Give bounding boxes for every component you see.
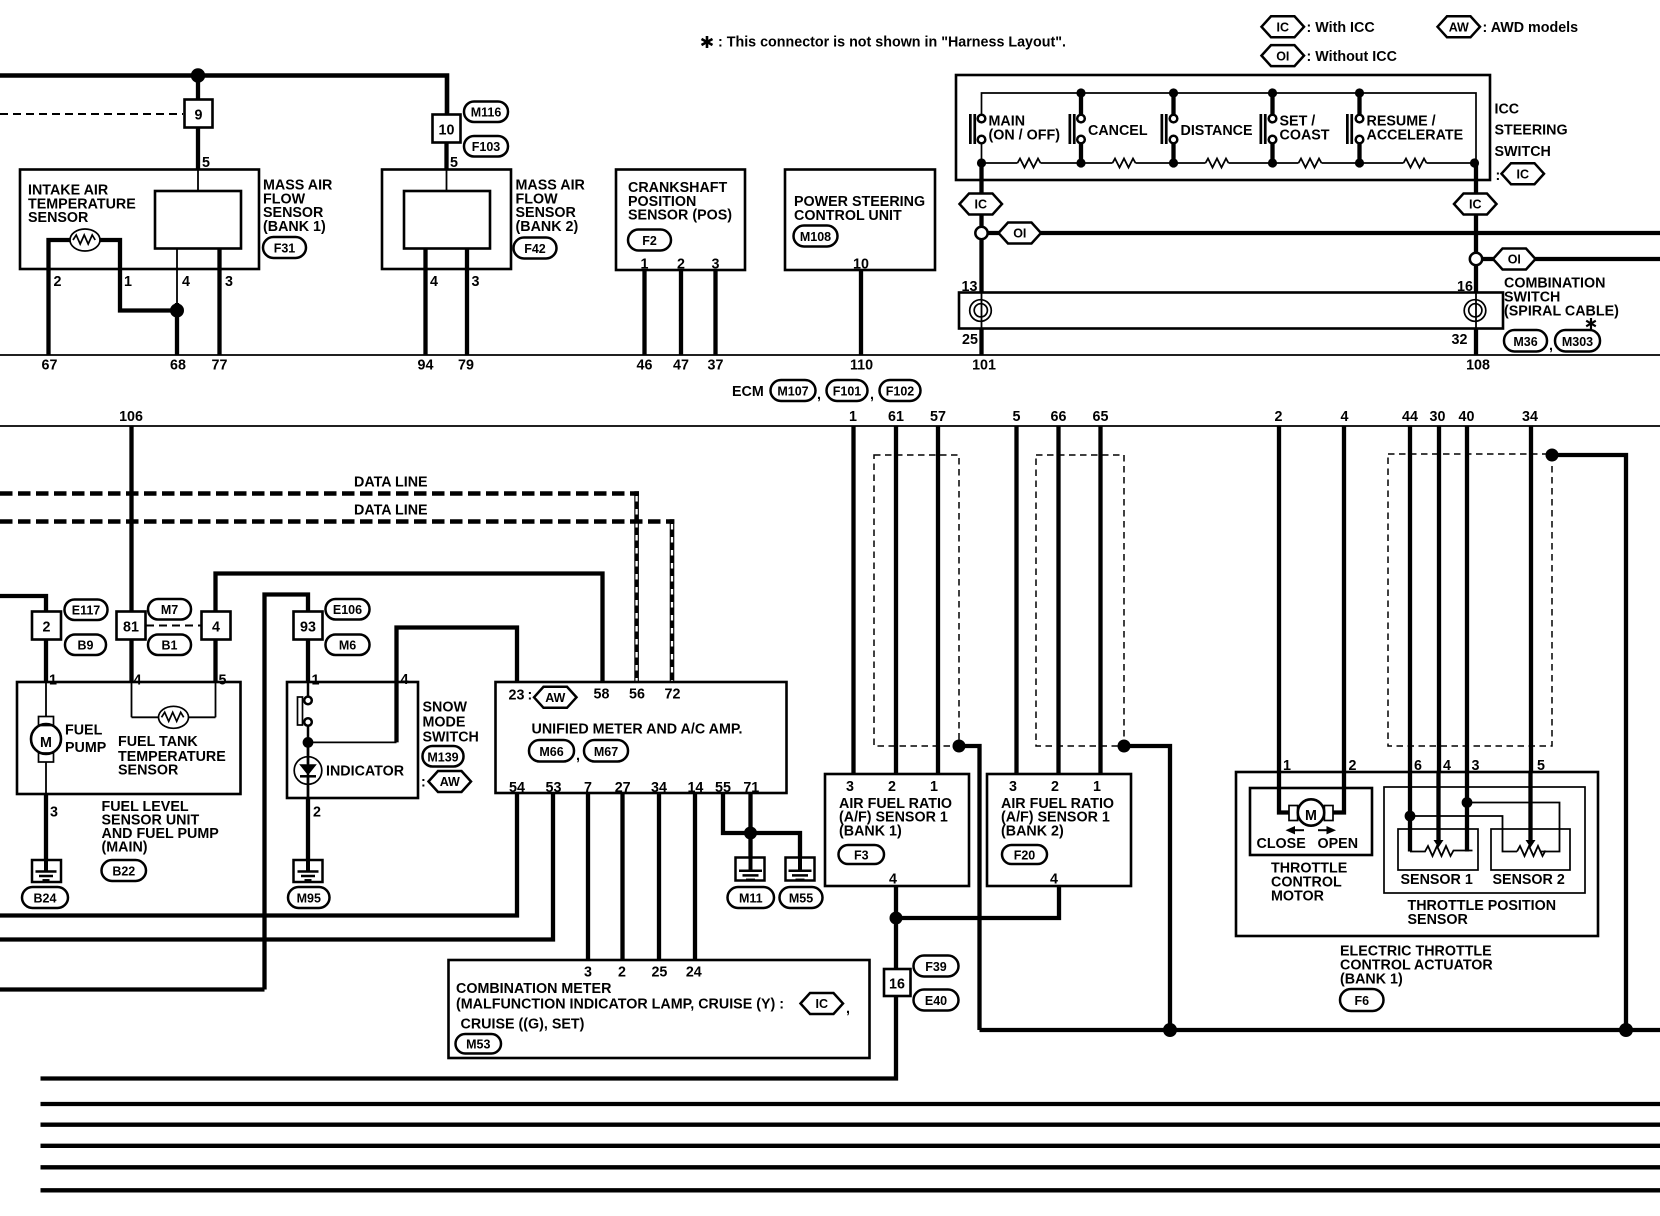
svg-text:3: 3 (584, 965, 592, 981)
circle node right (1470, 253, 1482, 265)
svg-text:M36: M36 (1513, 335, 1537, 349)
thermistor fuel tank temperature (131, 682, 133, 717)
svg-text:UNIFIED METER AND A/C AMP.: UNIFIED METER AND A/C AMP. (532, 722, 743, 738)
wire OI right branch (1481, 257, 1660, 261)
air fuel ratio sensor 1 bank 2 box (987, 774, 1131, 886)
svg-text:4: 4 (401, 672, 409, 688)
connector F20 (1002, 845, 1047, 864)
svg-text:F102: F102 (886, 385, 915, 399)
power steering control unit box (785, 170, 935, 271)
svg-text:DATA LINE: DATA LINE (354, 503, 428, 519)
svg-text:34: 34 (1522, 409, 1538, 425)
wire left feed to fuse 2 (0, 596, 46, 612)
svg-text:(BANK 1): (BANK 1) (1340, 972, 1403, 988)
wire ECM 106 to fuse 81 (129, 426, 133, 612)
svg-text:IC: IC (1277, 21, 1290, 35)
ICC inner circuit rectangle (982, 93, 1477, 163)
wire ECM 66 to AF2 pin2 (1056, 426, 1060, 774)
connector M107 (771, 380, 816, 401)
crankshaft position sensor box (616, 170, 745, 271)
switch CANCEL (1069, 114, 1072, 144)
spiral cable symbol right (1475, 293, 1477, 329)
fuse 2 (32, 612, 61, 640)
svg-text:INDICATOR: INDICATOR (326, 764, 405, 780)
wire ECM 57 to AF1 pin1 (936, 426, 940, 774)
svg-text:B9: B9 (78, 639, 94, 653)
svg-text:30: 30 (1430, 409, 1446, 425)
wire crank pin3 to ECM 37 (713, 270, 717, 355)
snow wire dot to pin4 (308, 741, 397, 743)
svg-text:93: 93 (300, 620, 316, 636)
switch MAIN plates (969, 114, 972, 144)
connector F31 (263, 237, 306, 258)
svg-text:(MAIN): (MAIN) (102, 840, 148, 856)
svg-text:SENSOR: SENSOR (1408, 912, 1469, 928)
svg-text:5: 5 (219, 673, 227, 689)
hexagon OI left (999, 223, 1042, 244)
svg-text:46: 46 (637, 358, 653, 374)
shield drain AF2 (1118, 740, 1131, 753)
svg-text:56: 56 (629, 687, 645, 703)
svg-text:5: 5 (1013, 409, 1021, 425)
fuel pump motor terminal top (39, 717, 54, 726)
svg-text:68: 68 (170, 358, 186, 374)
connector M36 (1504, 330, 1547, 352)
motor arrows (1292, 829, 1330, 831)
svg-text:E40: E40 (925, 994, 947, 1008)
svg-text:ECM: ECM (732, 384, 764, 400)
svg-text:37: 37 (708, 358, 724, 374)
wire main supply top (0, 76, 447, 116)
svg-text:24: 24 (686, 965, 702, 981)
wire fuse93 to snow pin1 (306, 640, 310, 683)
wire unified pin54 to left (0, 793, 517, 916)
star mark comb switch (1586, 318, 1596, 329)
svg-text:4: 4 (134, 673, 142, 689)
switch DISTANCE (1161, 114, 1164, 144)
junction dots ICC bottom line (977, 158, 986, 167)
svg-text:110: 110 (850, 358, 873, 374)
svg-text:IC: IC (1469, 198, 1482, 212)
svg-text:SENSOR 2: SENSOR 2 (1493, 872, 1565, 888)
svg-text:B1: B1 (162, 639, 178, 653)
note star (702, 36, 713, 48)
svg-text::: : (1496, 168, 1501, 184)
svg-text:2: 2 (1275, 409, 1283, 425)
ECM bottom bus line (0, 425, 1660, 427)
wire fuse2 to fuel pump pin1 (44, 640, 48, 683)
unified meter and A/C amp box (496, 682, 787, 793)
wire ECM 40 to throttle pin3 (1465, 426, 1469, 772)
svg-text:47: 47 (673, 358, 689, 374)
bottom wire 6 (41, 1188, 1660, 1192)
connector E40 (914, 990, 959, 1011)
wire intake pin1 (100, 240, 177, 311)
svg-text:4: 4 (889, 872, 897, 888)
svg-text:94: 94 (418, 358, 434, 374)
wire dashed to fuse 9 (0, 113, 183, 115)
svg-text:M303: M303 (1562, 335, 1593, 349)
TPS resistor 1 (1410, 846, 1473, 856)
svg-text:DATA LINE: DATA LINE (354, 475, 428, 491)
LED indicator (294, 757, 322, 785)
bottom wire 4 (41, 1144, 1660, 1148)
circle node left (975, 227, 987, 239)
svg-text:SWITCH: SWITCH (423, 730, 479, 746)
svg-text:OI: OI (1508, 253, 1521, 267)
fuel pump motor terminal bottom (39, 753, 54, 762)
wire ECM 1 to AF1 pin3 (851, 426, 855, 774)
svg-text:COAST: COAST (1280, 128, 1330, 144)
wire unified pin71 to ground M11 (748, 793, 752, 858)
fuel pump motor wire pin1 (45, 682, 47, 717)
wire MAF1 pin4 to ECM 68 (176, 249, 178, 304)
svg-text:M116: M116 (471, 106, 502, 120)
resistor ICC 4 (1299, 159, 1322, 168)
connector M66 (529, 740, 574, 762)
svg-text:F31: F31 (274, 242, 296, 256)
switch SET/COAST (1260, 114, 1263, 144)
connector E106 (326, 599, 370, 620)
wire comb switch left to ECM 101 (979, 329, 983, 356)
wire fuse 9 drop (196, 76, 200, 101)
svg-text:M: M (40, 735, 52, 751)
svg-text:M6: M6 (339, 639, 356, 653)
svg-text:2: 2 (54, 274, 62, 290)
svg-text:B22: B22 (112, 865, 135, 879)
svg-text:32: 32 (1452, 332, 1468, 348)
svg-text:1: 1 (930, 779, 938, 795)
svg-text:53: 53 (546, 780, 562, 796)
legend IC hexagon (1262, 16, 1305, 37)
snow switch plate (298, 697, 303, 725)
resistor ICC 3 (1206, 159, 1229, 168)
svg-text:E117: E117 (72, 604, 101, 618)
svg-text:SENSOR (POS): SENSOR (POS) (628, 208, 732, 224)
svg-text:16: 16 (889, 977, 905, 993)
spiral cable symbol left (981, 293, 983, 329)
svg-text:CRUISE ((G), SET): CRUISE ((G), SET) (461, 1017, 585, 1033)
snow switch wire pin1 (307, 682, 310, 696)
svg-text:(BANK 1): (BANK 1) (839, 824, 902, 840)
connector B24 (22, 887, 68, 908)
svg-text:SWITCH: SWITCH (1495, 144, 1551, 160)
wire ICC left drop 13/101 (979, 163, 983, 293)
svg-text:: AWD models: : AWD models (1483, 20, 1579, 36)
svg-text:MODE: MODE (423, 715, 466, 731)
svg-text:AW: AW (440, 775, 460, 789)
wire snow pin4 to unified pin23 (397, 628, 518, 683)
wire AF2 pin4 to junction (896, 886, 1059, 918)
svg-text:(ON / OFF): (ON / OFF) (989, 128, 1061, 144)
svg-text:65: 65 (1093, 409, 1109, 425)
ECM top bus line (0, 354, 1660, 356)
fuel level sensor unit box (17, 682, 241, 794)
wire fuel pump pin3 (45, 762, 47, 794)
svg-text:2: 2 (888, 779, 896, 795)
svg-text:(BANK 1): (BANK 1) (263, 219, 326, 235)
wire ECM 65 to AF2 pin1 (1098, 426, 1102, 774)
combination switch spiral cable box (959, 293, 1503, 329)
switch RESUME/ACCELERATE (1346, 114, 1349, 144)
svg-text:B24: B24 (34, 892, 57, 906)
wire fuse4 to fuel tank sensor pin5 (213, 640, 217, 683)
connector F3 (839, 845, 885, 864)
svg-text:FUEL TANK: FUEL TANK (118, 734, 198, 750)
svg-text:F6: F6 (1355, 994, 1370, 1008)
svg-text:81: 81 (123, 620, 139, 636)
MAF1 inner box (155, 191, 241, 249)
ground B24 (32, 860, 61, 882)
fuse 9 (185, 100, 213, 128)
svg-text:25: 25 (962, 332, 978, 348)
wire fuse9 to MAF1 pin5 (196, 128, 200, 171)
connector M6 (326, 635, 370, 656)
svg-text:CANCEL: CANCEL (1088, 123, 1148, 139)
svg-text:F3: F3 (854, 849, 869, 863)
svg-text:M11: M11 (739, 892, 763, 906)
junction dot grounds (744, 827, 757, 840)
electric throttle control actuator box (1236, 772, 1598, 936)
connector F6 (1340, 989, 1384, 1011)
svg-text:F42: F42 (524, 242, 546, 256)
shield drain AF1 (953, 740, 966, 753)
TPS pin3 wire and dot (1465, 772, 1469, 852)
svg-text:IC: IC (975, 198, 988, 212)
wire ECM 44 to throttle pin6 (1408, 426, 1412, 772)
shield dashed box AF2 (1036, 455, 1124, 746)
resistor ICC 1 (1018, 159, 1041, 168)
svg-text:25: 25 (651, 965, 667, 981)
hexagon IC for ICC switch (1502, 163, 1545, 184)
main ground wire (980, 1028, 1660, 1032)
connector F2 (628, 230, 671, 251)
connector F42 (514, 238, 557, 259)
hexagon IC comb meter (801, 993, 844, 1014)
MAF2 inner box (404, 191, 490, 249)
connector M95 (288, 887, 330, 908)
fuse 81 (117, 612, 146, 640)
svg-text:4: 4 (430, 274, 438, 290)
svg-text:ACCELERATE: ACCELERATE (1367, 128, 1464, 144)
svg-text:SENSOR: SENSOR (118, 763, 179, 779)
wire ECM 61 to AF1 pin2 (894, 426, 898, 774)
legend AW hexagon (1438, 16, 1481, 37)
svg-text:1: 1 (849, 409, 857, 425)
svg-text:OPEN: OPEN (1318, 836, 1359, 852)
svg-text:77: 77 (212, 358, 228, 374)
wire crank pin1 to ECM 46 (642, 270, 646, 355)
wire OI left branch (987, 231, 1660, 235)
svg-text:M: M (1305, 808, 1317, 824)
svg-text:1: 1 (312, 673, 320, 689)
fuse 4 (202, 612, 231, 640)
sensor 2 box (1491, 829, 1570, 870)
svg-text:E106: E106 (333, 603, 362, 617)
fuel pump motor circle (31, 724, 61, 754)
snow mode switch box (287, 682, 418, 798)
svg-text:(SPIRAL CABLE): (SPIRAL CABLE) (1504, 304, 1619, 320)
svg-text::: : (528, 688, 533, 704)
wire fuse16 to bottom line1 (41, 996, 897, 1079)
thermistor intake air temp (70, 229, 100, 251)
svg-text:2: 2 (618, 965, 626, 981)
wire ECM 30 to throttle pin4 (1437, 426, 1441, 772)
wire PS pin10 to ECM 110 (859, 270, 863, 355)
wire unified pin27 to comb meter 2 (620, 793, 624, 960)
wire ECM 34 to throttle pin5 (1529, 426, 1533, 772)
svg-text:61: 61 (888, 409, 904, 425)
LED indicator wire (307, 742, 310, 798)
svg-text:,: , (846, 1001, 850, 1017)
svg-text:67: 67 (42, 358, 58, 374)
svg-text:SENSOR: SENSOR (28, 210, 89, 226)
connector F103 (464, 136, 508, 157)
svg-text:OI: OI (1276, 49, 1289, 63)
svg-text:1: 1 (49, 673, 57, 689)
wire AF1 pin4 junction (894, 886, 898, 969)
connector F102 (880, 380, 921, 401)
svg-text:AW: AW (1449, 21, 1469, 35)
fuse 16 (884, 969, 911, 996)
svg-text:F39: F39 (925, 960, 947, 974)
junction dot pin1/pin4 (170, 304, 184, 318)
svg-text:: With ICC: : With ICC (1307, 20, 1375, 36)
svg-text:SNOW: SNOW (423, 700, 468, 716)
connector M108 (794, 226, 838, 247)
motor wires (1279, 772, 1289, 813)
svg-text:108: 108 (1466, 358, 1490, 374)
connector M116 (464, 102, 508, 123)
TPS wiper 1 (1436, 772, 1440, 840)
legend OI hexagon (1262, 45, 1305, 66)
svg-text:4: 4 (1341, 409, 1349, 425)
svg-text:AW: AW (545, 691, 565, 705)
connector M55 (780, 887, 823, 908)
svg-text:66: 66 (1051, 409, 1067, 425)
motor terminals (1289, 806, 1298, 821)
svg-text:3: 3 (846, 779, 854, 795)
bottom wire 3 (41, 1123, 1660, 1127)
junction dot supply/fuse9 (191, 68, 205, 82)
connector F39 (914, 956, 959, 977)
svg-text:: This connector is not shown: : This connector is not shown in "Harnes… (718, 35, 1066, 51)
ICC bottom line segments (982, 162, 1477, 164)
svg-text:4: 4 (212, 620, 220, 636)
resistor ICC 5 (1404, 159, 1427, 168)
svg-text:2: 2 (313, 805, 321, 821)
wire ECM 2 to throttle pin1 (1277, 426, 1281, 772)
throttle position sensor box (1384, 787, 1585, 893)
svg-text:(MALFUNCTION INDICATOR LAMP, C: (MALFUNCTION INDICATOR LAMP, CRUISE (Y) … (456, 997, 784, 1013)
svg-text:72: 72 (665, 687, 681, 703)
svg-text:IC: IC (816, 997, 829, 1011)
connector E117 (65, 600, 108, 621)
svg-text:(BANK 2): (BANK 2) (1001, 824, 1064, 840)
svg-text:SENSOR 1: SENSOR 1 (1401, 872, 1473, 888)
ground M55 (786, 858, 815, 881)
hexagon IC left (960, 194, 1003, 215)
svg-text:3: 3 (50, 805, 58, 821)
shield drain throttle (1546, 449, 1559, 462)
wire pin58 link fuse4 to unified meter (216, 574, 603, 683)
snow switch contacts (304, 697, 312, 705)
svg-text:79: 79 (458, 358, 474, 374)
svg-text:DISTANCE: DISTANCE (1181, 123, 1253, 139)
svg-text:10: 10 (439, 123, 455, 139)
svg-text:2: 2 (1051, 779, 1059, 795)
svg-text:1: 1 (124, 274, 132, 290)
wire crank pin2 to ECM 47 (679, 270, 683, 355)
TPS pin6 wire and dot (1408, 772, 1412, 852)
svg-text:M53: M53 (466, 1038, 490, 1052)
connector M53 (456, 1034, 502, 1054)
MAF2 outer box (382, 170, 511, 270)
hexagon OI right (1493, 249, 1536, 270)
svg-text:40: 40 (1459, 409, 1475, 425)
svg-text:23: 23 (509, 688, 525, 704)
fuse 10 (433, 115, 461, 143)
ground M11 (736, 858, 765, 881)
shield dashed box throttle (1388, 454, 1552, 746)
svg-text:CONTROL UNIT: CONTROL UNIT (794, 208, 902, 224)
svg-text:,: , (870, 387, 874, 403)
wire MAF2 pin3 to ECM 79 (465, 249, 469, 356)
wire unified pin34 to comb meter 25 (657, 793, 661, 960)
bottom wire 2 (41, 1102, 1660, 1106)
wire comb switch right to ECM 108 (1474, 329, 1478, 356)
svg-text:M107: M107 (777, 385, 808, 399)
air fuel ratio sensor 1 bank 1 box (825, 774, 969, 886)
svg-text:3: 3 (225, 274, 233, 290)
bottom wire 5 (41, 1165, 1660, 1169)
svg-text:M95: M95 (297, 892, 321, 906)
connector M139 (423, 746, 464, 767)
svg-text:101: 101 (972, 358, 996, 374)
wire unified pin14 to comb meter 24 (693, 793, 697, 960)
svg-text:F2: F2 (642, 234, 657, 248)
svg-text:,: , (817, 387, 821, 403)
wire fuse81 to fuel tank sensor pin4 (129, 640, 133, 683)
connector M7 (148, 599, 191, 620)
svg-text:106: 106 (119, 409, 143, 425)
svg-text:,: , (1549, 338, 1553, 354)
svg-text:M7: M7 (161, 603, 178, 617)
hexagon AW pin23 (534, 687, 577, 708)
svg-text:PUMP: PUMP (65, 740, 107, 756)
sensor 1 box (1398, 829, 1478, 870)
wire unified pin53 to left (0, 793, 553, 940)
svg-text:54: 54 (509, 780, 525, 796)
svg-text:M55: M55 (789, 892, 813, 906)
svg-text:COMBINATION METER: COMBINATION METER (456, 981, 612, 997)
svg-text:M66: M66 (539, 745, 563, 759)
svg-text:CLOSE: CLOSE (1257, 836, 1306, 852)
svg-text:58: 58 (594, 687, 610, 703)
svg-text:IC: IC (1517, 167, 1530, 181)
wire ICC right drop 16/108 (1474, 163, 1478, 293)
svg-text:FUEL: FUEL (65, 723, 103, 739)
svg-text:MOTOR: MOTOR (1271, 889, 1325, 905)
ICC steering switch outer box (956, 75, 1490, 180)
svg-text:44: 44 (1402, 409, 1418, 425)
combination meter box (449, 960, 870, 1058)
wire intake pin2 to ECM 67 (49, 240, 71, 355)
svg-text:9: 9 (195, 108, 203, 124)
svg-text:F101: F101 (833, 385, 862, 399)
snow pin2 wire to ground M95 (306, 798, 310, 860)
shield dashed box AF1 (874, 455, 959, 746)
